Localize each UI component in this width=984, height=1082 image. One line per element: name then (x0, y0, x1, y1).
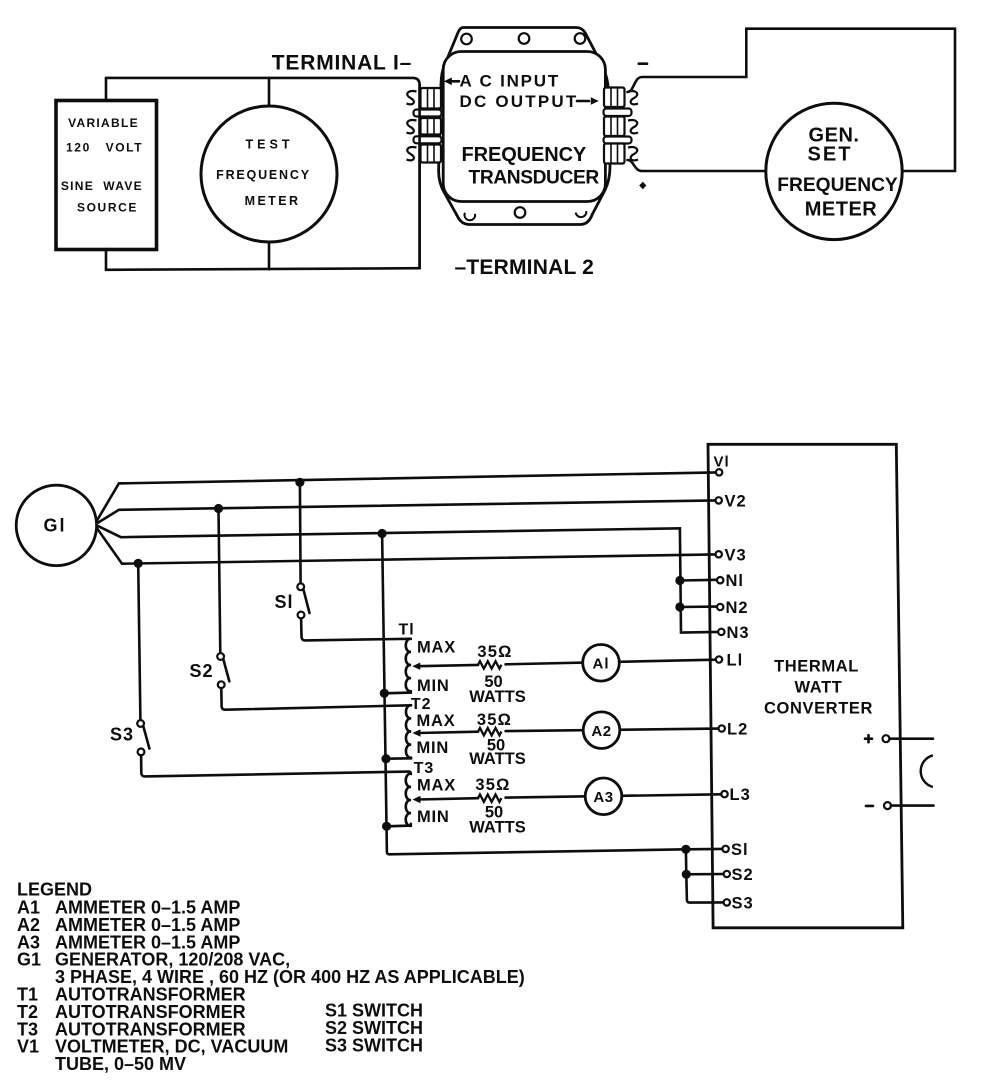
terminal L2 (719, 725, 725, 731)
svg-text:Ll: Ll (727, 652, 744, 670)
wire terminal1 vertical through lugs (418, 85, 421, 268)
svg-text:TRANSDUCER: TRANSDUCER (469, 167, 600, 188)
svg-text:35Ω: 35Ω (475, 776, 510, 794)
wire minus to voltmeter (891, 804, 934, 807)
thermal watt converter box (708, 444, 903, 928)
svg-text:Gl: Gl (43, 516, 66, 536)
svg-text:S3 SWITCH: S3 SWITCH (325, 1035, 423, 1055)
node junction S1 stub (681, 845, 690, 854)
wiper arrow T1 (412, 663, 420, 670)
switch S1 (274, 482, 309, 618)
wire bottom rail (106, 268, 420, 270)
svg-text:S3: S3 (110, 725, 134, 745)
svg-text:FREQUENCY: FREQUENCY (216, 168, 311, 182)
svg-text:Vl: Vl (714, 454, 730, 471)
svg-text:WATTS: WATTS (469, 819, 526, 837)
terminal lug stack right (604, 88, 639, 164)
svg-text:Nl: Nl (726, 572, 745, 590)
wiper arrow T3 (413, 796, 421, 803)
svg-text:V2: V2 (725, 493, 747, 511)
wire plus to voltmeter (890, 737, 934, 740)
voltmeter V1 partial circle (921, 755, 933, 787)
terminal L1 (716, 656, 722, 662)
wire transducer to gen set meter bottom (628, 160, 766, 171)
svg-text:Sl: Sl (731, 841, 749, 859)
node junction line2 S2 (214, 504, 223, 513)
terminal S2 (724, 871, 730, 877)
wire from source box top to top rail (105, 78, 108, 100)
terminal V1 (716, 469, 722, 475)
wire S2-S3 vertical (686, 874, 723, 902)
svg-text:A C INPUT: A C INPUT (460, 72, 561, 91)
screw hole bottom middle (515, 207, 526, 218)
svg-text:N2: N2 (726, 599, 749, 617)
screw hole bottom left (465, 213, 476, 220)
svg-text:A3: A3 (593, 789, 613, 806)
wire test meter bottom (268, 242, 271, 269)
terminal N2 (717, 604, 723, 610)
wire S1 stub (686, 848, 723, 851)
ammeter A2 (583, 712, 620, 749)
svg-text:VARIABLE: VARIABLE (68, 116, 139, 130)
wire S1-S2 vertical (686, 849, 724, 874)
resistor R1 zigzag 35 ohm (478, 661, 501, 668)
autotransformer T1 (384, 622, 456, 696)
switch S2 (189, 509, 229, 689)
wiper arrow T2 (413, 729, 421, 736)
svg-text:SET: SET (808, 144, 853, 166)
terminal L3 (721, 791, 727, 797)
svg-text:MAX: MAX (417, 712, 456, 730)
svg-text:WATTS: WATTS (469, 688, 526, 706)
terminal minus (884, 802, 891, 809)
svg-text:MIN: MIN (417, 677, 450, 695)
plus sign near transducer output (639, 182, 646, 189)
svg-text:FREQUENCY: FREQUENCY (777, 175, 898, 196)
ammeter A3 (585, 778, 622, 815)
ammeter A1 (583, 645, 620, 682)
svg-text:WATTS: WATTS (469, 750, 526, 768)
wire S3 to T3 top (141, 755, 409, 776)
terminal S3 (724, 899, 730, 905)
svg-text:35Ω: 35Ω (477, 643, 512, 661)
arrow AC input (444, 78, 452, 86)
svg-text:T2: T2 (411, 696, 432, 713)
screw hole top right (575, 33, 586, 44)
screw hole top left (461, 34, 472, 45)
arrow DC output (577, 100, 589, 103)
wire stub N2 (680, 605, 717, 608)
terminal V2 (716, 497, 722, 503)
autotransformer T3 (387, 760, 456, 826)
svg-text:–TERMINAL 2: –TERMINAL 2 (455, 256, 595, 279)
svg-text:L2: L2 (727, 721, 748, 739)
svg-text:V3: V3 (725, 547, 747, 565)
wire T2 wiper row (418, 732, 478, 733)
svg-text:Tl: Tl (399, 622, 415, 639)
terminal N3 (718, 629, 724, 635)
svg-text:THERMAL: THERMAL (774, 658, 859, 676)
wire R1 to L1 (506, 660, 716, 665)
node junction N2 (675, 602, 684, 611)
generator G1 (16, 485, 96, 565)
legend text block (17, 879, 525, 1074)
screw hole bottom right (576, 211, 587, 217)
switch S3 (110, 563, 149, 755)
wire phase 2 from G1 to V2 (98, 500, 716, 523)
svg-text:V1: V1 (17, 1036, 39, 1056)
svg-text:35Ω: 35Ω (477, 711, 512, 729)
svg-text:S2: S2 (189, 661, 213, 681)
svg-text:S3: S3 (732, 894, 754, 912)
svg-text:FREQUENCY: FREQUENCY (462, 144, 587, 166)
wire T1 wiper row (418, 665, 478, 666)
svg-text:SINE WAVE: SINE WAVE (61, 179, 143, 193)
svg-text:TEST: TEST (246, 138, 294, 152)
svg-text:MIN: MIN (417, 808, 450, 826)
svg-text:MAX: MAX (417, 639, 456, 657)
test frequency meter (201, 106, 337, 242)
svg-text:TERMINAL I–: TERMINAL I– (272, 51, 412, 74)
plus sign converter output (865, 735, 872, 742)
autotransformer T2 (386, 696, 456, 759)
svg-text:N3: N3 (727, 624, 750, 642)
node junction line3 neutral (378, 529, 387, 538)
node junction line1 S1 (295, 478, 304, 487)
wire from source box bottom to bottom rail (105, 249, 108, 270)
svg-text:WATT: WATT (795, 679, 843, 697)
wire stub N1 (680, 578, 717, 581)
wire R3 to L3 (506, 794, 722, 797)
wire test meter top (268, 78, 271, 106)
terminal N1 (717, 577, 723, 583)
wire phase 1 from G1 to V1 (97, 472, 716, 520)
svg-text:G1: G1 (17, 949, 41, 969)
svg-text:CONVERTER: CONVERTER (764, 700, 873, 718)
wire top rail to transducer terminal 1 (106, 78, 420, 268)
terminal plus (883, 735, 890, 742)
node junction N1 (675, 576, 684, 585)
wire transducer to gen set meter top (628, 29, 956, 171)
wire phase 4 from G1 to V3 (97, 528, 716, 563)
wire S2 to T2 top (221, 688, 411, 710)
wire phase 3 from G1 to neutral branch (98, 526, 719, 633)
svg-text:Sl: Sl (274, 592, 293, 612)
terminal lug stack left (407, 88, 442, 163)
svg-text:METER: METER (245, 194, 301, 208)
screw hole top middle (519, 33, 530, 44)
terminal V3 (716, 551, 722, 557)
wire S1 to T1 top (301, 618, 411, 640)
svg-text:L3: L3 (730, 786, 751, 804)
frequency transducer case (439, 28, 610, 225)
node junction line4 S3 (134, 559, 143, 568)
svg-text:DC OUTPUT: DC OUTPUT (460, 92, 579, 111)
svg-text:SOURCE: SOURCE (77, 200, 138, 214)
resistor R3 zigzag 35 ohm (478, 795, 501, 802)
svg-text:T3: T3 (414, 760, 435, 777)
node junction S2 stub (682, 870, 691, 879)
resistor R2 zigzag 35 ohm (478, 728, 501, 735)
minus sign near transducer output (639, 62, 647, 65)
svg-text:A2: A2 (591, 723, 611, 740)
node T3 min neutral (382, 822, 391, 831)
svg-text:LEGEND: LEGEND (17, 879, 92, 899)
svg-text:TUBE, 0–50 MV: TUBE, 0–50 MV (55, 1054, 186, 1074)
svg-text:MIN: MIN (417, 739, 450, 757)
node T1 min neutral (380, 689, 389, 698)
svg-text:METER: METER (805, 199, 878, 221)
wire T3 wiper row (418, 798, 478, 799)
terminal S1 (722, 846, 728, 852)
node T2 min neutral (381, 754, 390, 763)
svg-text:Al: Al (593, 656, 610, 673)
wire R2 to L2 (506, 729, 719, 732)
gen set frequency meter (766, 103, 902, 239)
source box VARIABLE 120 VOLT SINE WAVE SOURCE (56, 101, 157, 250)
minus sign converter output (866, 805, 873, 808)
svg-text:120 VOLT: 120 VOLT (66, 140, 143, 154)
svg-text:MAX: MAX (417, 777, 456, 795)
svg-text:S2: S2 (732, 866, 754, 884)
wire neutral vertical (382, 534, 686, 855)
